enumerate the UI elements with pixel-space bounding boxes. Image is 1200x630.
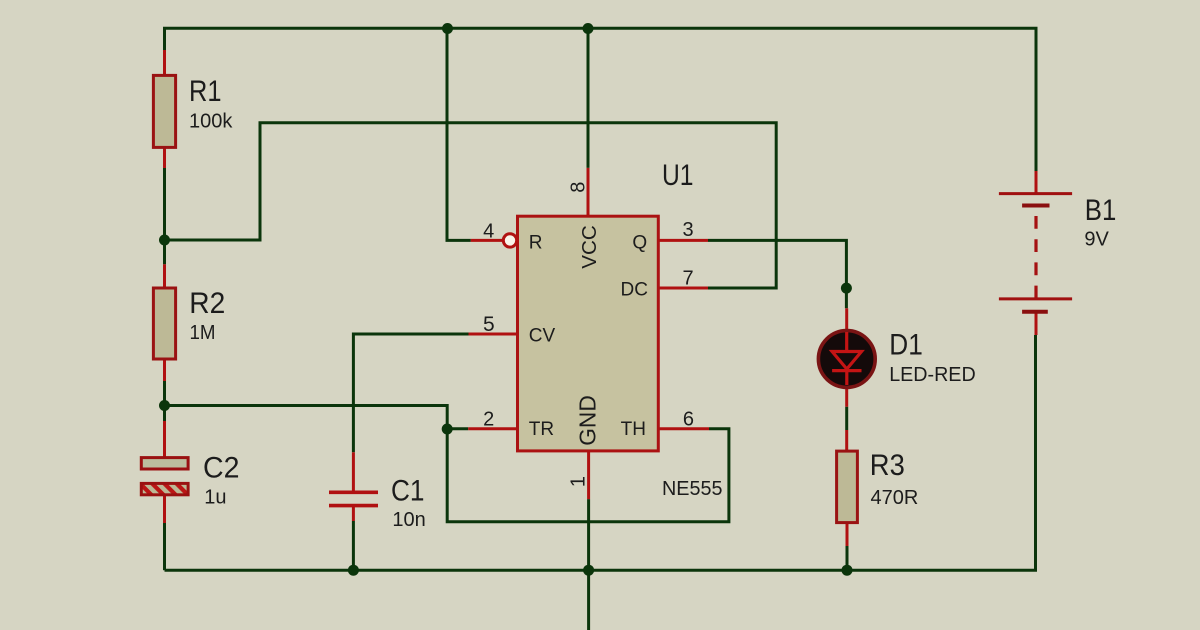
capacitor C2 top plate	[141, 458, 188, 469]
wire node B to TR pin 2	[165, 406, 469, 429]
svg-text:DC: DC	[621, 280, 648, 301]
svg-text:U1: U1	[662, 159, 694, 192]
pin 2 lead	[468, 427, 518, 430]
battery B1	[999, 194, 1072, 312]
node C1 ground	[348, 565, 359, 576]
pin 4 lead	[471, 239, 504, 242]
pin lead B1 bottom	[1035, 313, 1038, 335]
wire node A to DC pin 7 net	[165, 123, 777, 288]
node A (R1/R2)	[159, 235, 170, 246]
svg-text:1u: 1u	[204, 486, 226, 508]
wire top rail to pin 8	[587, 28, 590, 168]
svg-text:D1: D1	[889, 329, 923, 362]
svg-text:4: 4	[483, 221, 494, 243]
svg-text:B1: B1	[1085, 194, 1117, 227]
svg-text:1M: 1M	[190, 322, 216, 344]
wire top rail to pin 4	[447, 28, 471, 240]
pin 1 lead	[587, 451, 590, 499]
wire TR to TH U-shape	[447, 429, 729, 522]
svg-text:R: R	[529, 232, 543, 253]
node B (R2/C2/TR)	[159, 400, 170, 411]
svg-text:R1: R1	[189, 75, 222, 108]
svg-text:470R: 470R	[871, 487, 919, 509]
svg-text:GND: GND	[575, 395, 601, 446]
wire R1 bottom to node A	[163, 168, 166, 240]
resistor R2	[153, 288, 175, 359]
pin lead R3 top	[845, 430, 848, 451]
svg-text:TH: TH	[621, 419, 646, 440]
svg-text:3: 3	[682, 219, 693, 241]
svg-text:C2: C2	[203, 452, 240, 485]
svg-text:Q: Q	[632, 232, 647, 253]
wire LED to R3	[845, 407, 848, 430]
pin lead C2 bottom	[163, 496, 166, 523]
pin lead C2 top	[163, 421, 166, 457]
node R3 ground	[842, 565, 853, 576]
svg-text:NE555: NE555	[662, 478, 723, 500]
wire R3 bottom to ground rail	[846, 546, 849, 570]
svg-text:5: 5	[483, 313, 495, 336]
svg-text:6: 6	[683, 408, 694, 430]
wire C1 bottom to ground rail	[352, 521, 355, 570]
capacitor C1 plates	[329, 492, 378, 505]
pin lead B1 top	[1035, 171, 1038, 194]
capacitor C2 bottom plate	[141, 483, 188, 494]
svg-text:100k: 100k	[189, 111, 233, 133]
svg-text:R3: R3	[870, 449, 905, 482]
node top rail / pin4	[442, 23, 453, 34]
wire pin 1 to ground	[587, 499, 590, 630]
pin lead R2 bottom	[163, 359, 166, 381]
svg-text:7: 7	[682, 268, 693, 290]
pin 8 lead	[587, 168, 590, 216]
wire Q pin 3 to LED	[708, 240, 846, 308]
node pin1 ground	[583, 565, 594, 576]
svg-text:2: 2	[483, 408, 494, 430]
svg-text:VCC: VCC	[578, 225, 601, 269]
pin 3 lead	[658, 239, 708, 242]
pin 7 lead	[658, 287, 708, 290]
svg-text:1: 1	[567, 476, 589, 487]
svg-text:R2: R2	[189, 287, 225, 320]
svg-text:10n: 10n	[392, 509, 425, 531]
pin 5 lead	[469, 333, 518, 336]
node top rail / pin8	[583, 23, 594, 34]
wire C2 bottom to ground rail	[163, 523, 166, 570]
svg-text:9V: 9V	[1084, 229, 1109, 251]
svg-text:LED-RED: LED-RED	[889, 364, 976, 386]
pin 4 invert bubble	[503, 234, 516, 247]
pin lead C1 bottom	[352, 507, 355, 521]
wire R2 bottom to node B	[163, 381, 166, 406]
pin 6 lead	[659, 427, 709, 430]
pin lead C1 top	[352, 452, 355, 491]
wire CV pin 5 to C1	[353, 334, 468, 452]
svg-text:CV: CV	[529, 326, 556, 347]
node TR pin	[442, 424, 453, 435]
svg-text:8: 8	[568, 182, 590, 193]
resistor R1	[153, 75, 175, 147]
wire node B to C2	[163, 406, 166, 422]
IC U1 NE555 body	[518, 216, 659, 451]
wire R2 top	[163, 240, 166, 264]
svg-text:TR: TR	[529, 419, 554, 440]
pin lead R1 bottom	[163, 148, 166, 169]
wire ground rail	[165, 335, 1036, 570]
pin lead D1 bottom	[845, 387, 848, 407]
LED D1	[818, 331, 875, 388]
svg-text:C1: C1	[391, 474, 425, 507]
pin lead R3 bottom	[846, 523, 849, 546]
node on LED branch	[841, 283, 852, 294]
pin lead R2 top	[163, 264, 166, 288]
resistor R3	[837, 451, 858, 522]
pin lead D1 top	[845, 308, 848, 330]
pin lead R1 top	[163, 50, 166, 75]
wire top rail	[165, 28, 1037, 171]
